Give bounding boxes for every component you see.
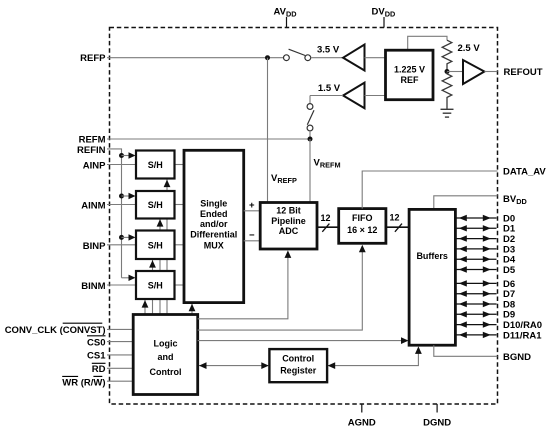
ground symbol under divider [441, 108, 454, 110]
wire logic to Buffers enable [198, 340, 402, 342]
svg-text:AINM: AINM [81, 200, 105, 211]
svg-text:CS1: CS1 [87, 350, 106, 361]
svg-text:1.225 V: 1.225 V [394, 64, 425, 74]
svg-text:REFM: REFM [79, 134, 106, 145]
wire REFIN branch to S/H 2 [122, 195, 130, 197]
wire switch S1 to 3.5V buffer [311, 57, 343, 59]
wire logic to ADC clock [198, 255, 288, 319]
sample clock lines from logic to S/H and MUX [144, 300, 146, 315]
wire RD [107, 367, 133, 369]
wire BINM to S/H 4 [107, 284, 136, 286]
node REFIN to S/H 2 [119, 194, 124, 199]
DGND ground pin [436, 404, 438, 413]
S/H 2 box [136, 191, 175, 219]
Buffers box [409, 209, 455, 345]
svg-text:FIFO: FIFO [352, 213, 373, 223]
wire 3.5V buffer input from REF box [365, 57, 386, 59]
data pin D1 bidirectional line [455, 227, 496, 229]
arrowhead into FIFO bottom [359, 245, 366, 253]
svg-text:−: − [249, 230, 255, 241]
arrowhead into control register right edge [328, 362, 336, 369]
wire REF box top to resistor divider [408, 36, 447, 50]
svg-text:REFOUT: REFOUT [504, 67, 543, 78]
clock arrowhead into S/H 3 [149, 260, 156, 268]
op-amp buffer REFOUT (points right) [463, 60, 484, 84]
arrowhead into Buffers bottom [415, 346, 422, 354]
svg-text:DGND: DGND [423, 418, 451, 429]
svg-text:3.5 V: 3.5 V [317, 45, 340, 56]
op-amp buffer 1.5V (points left) [343, 83, 364, 109]
node 2.5V tap [445, 69, 450, 74]
AGND ground pin [361, 404, 363, 413]
wire DATA_AV from FIFO [362, 171, 497, 209]
svg-text:Register: Register [280, 366, 317, 376]
svg-text:BINP: BINP [83, 241, 106, 252]
bus ADC to FIFO [317, 226, 339, 228]
wire logic to FIFO control [198, 249, 363, 330]
ADC box 12 Bit Pipeline ADC [260, 203, 317, 250]
wire REFOUT buffer to pin [484, 71, 497, 73]
svg-text:WR (R/W): WR (R/W) [62, 377, 105, 388]
wire control register to Buffers [328, 351, 419, 366]
svg-text:S/H: S/H [148, 280, 163, 290]
svg-text:MUX: MUX [204, 241, 224, 251]
wire MUX plus output to ADC [244, 210, 261, 212]
wire switch S2 down to REFM junction [309, 131, 311, 139]
node VREFP junction on REFP wire [265, 55, 270, 60]
svg-text:S/H: S/H [148, 240, 163, 250]
wire 1.5V buffer output to switch S2 [310, 95, 343, 97]
svg-text:Logic: Logic [154, 339, 178, 349]
svg-text:REF: REF [401, 75, 420, 85]
svg-text:and: and [157, 352, 173, 362]
voltage reference U1 1.225V REF box [386, 50, 434, 99]
wire VREFP vertical down to ADC [267, 58, 269, 203]
svg-text:BINM: BINM [81, 281, 105, 292]
svg-text:REFIN: REFIN [77, 145, 106, 156]
data pin D6 bidirectional line [455, 282, 496, 284]
switch S2 (1.5V buffer to REFM net) [307, 104, 313, 110]
Control Register box [269, 349, 327, 382]
bus width slash ADC-FIFO [322, 224, 329, 232]
svg-text:D5: D5 [503, 265, 516, 276]
clock arrowhead into S/H 4 [142, 300, 149, 308]
svg-text:AGND: AGND [348, 418, 376, 429]
overline WR [62, 375, 78, 377]
wire S/H 1 output to MUX [175, 164, 185, 166]
S/H 4 box [136, 271, 175, 299]
switch S1 (REFP to 3.5V buffer) [284, 55, 290, 61]
svg-text:Differential: Differential [190, 229, 237, 239]
svg-text:2.5 V: 2.5 V [458, 43, 481, 54]
data pin D8 bidirectional line [455, 303, 496, 305]
FIFO box 16x12 [339, 209, 386, 244]
svg-text:and/or: and/or [200, 219, 228, 229]
svg-text:REFP: REFP [80, 53, 106, 64]
node REFM junction [308, 137, 313, 142]
svg-text:ADC: ADC [279, 226, 299, 236]
clock arrowhead into MUX [189, 304, 196, 312]
wire BGND to Buffers bottom [434, 345, 498, 356]
wire S/H 4 output to MUX [175, 284, 185, 286]
svg-text:DATA_AV: DATA_AV [503, 167, 546, 178]
svg-text:12: 12 [390, 212, 400, 222]
svg-text:+: + [249, 200, 255, 211]
wire 2.5V tap to REFOUT buffer [447, 71, 463, 73]
wire REFIN branch to S/H 4 [122, 277, 130, 279]
wire CS0 [107, 341, 133, 343]
overline W of R/W [93, 375, 102, 377]
wire REFIN distribution [107, 149, 122, 278]
data pin D5 bidirectional line [455, 269, 496, 271]
data pin D4 bidirectional line [455, 258, 496, 260]
wire BINP to S/H 3 [107, 244, 136, 246]
data pin D9 bidirectional line [455, 313, 496, 315]
arrowhead into ADC bottom [285, 250, 292, 258]
node REFIN to S/H 3 [119, 235, 124, 240]
overline CONVST [63, 322, 103, 324]
svg-text:S/H: S/H [148, 200, 163, 210]
data pin D10/RA0 bidirectional line [455, 324, 496, 326]
MUX box Single Ended and/or Differential MUX [184, 150, 244, 302]
svg-text:RD: RD [92, 364, 106, 375]
wire 1.5V buffer input from REF box [365, 95, 386, 97]
clock arrowhead into S/H 2 [157, 219, 164, 227]
overline CS0 [87, 335, 106, 337]
wire S/H 3 output to MUX [175, 244, 185, 246]
svg-text:Pipeline: Pipeline [271, 216, 306, 226]
wire AINP to S/H 1 [107, 164, 136, 166]
wire MUX minus output to ADC [244, 240, 261, 242]
wire CS1 [107, 354, 133, 356]
resistor R1 (upper divider) [442, 40, 452, 71]
wire CONV_CLK [107, 328, 133, 330]
svg-text:CONV_CLK (CONVST): CONV_CLK (CONVST) [5, 325, 106, 336]
data pin D11/RA1 bidirectional line [455, 334, 496, 336]
svg-text:Control: Control [282, 354, 314, 364]
wire REFIN branch to S/H 1 [122, 155, 130, 157]
bus width slash FIFO-Buffers [395, 224, 402, 232]
op-amp buffer 3.5V (points left) [343, 45, 364, 71]
arrowhead into logic right edge [199, 362, 207, 369]
data pin D7 bidirectional line [455, 293, 496, 295]
svg-text:BGND: BGND [503, 352, 531, 363]
data pin D0 bidirectional line [455, 217, 496, 219]
svg-text:16 × 12: 16 × 12 [347, 225, 377, 235]
wire REFP to switch S1 [107, 57, 284, 59]
resistor R2 (lower divider) [442, 72, 452, 110]
S/H 1 box [136, 151, 175, 179]
wire VREFM vertical down to ADC [309, 139, 311, 203]
overline RD [92, 362, 106, 364]
svg-text:S/H: S/H [148, 160, 163, 170]
wire REFIN branch to S/H 3 [122, 236, 130, 238]
node REFIN to S/H 1 [119, 153, 124, 158]
svg-text:1.5 V: 1.5 V [318, 83, 341, 94]
svg-text:D11/RA1: D11/RA1 [503, 330, 542, 341]
arrowhead into control register left edge [261, 362, 269, 369]
svg-text:AINP: AINP [83, 160, 106, 171]
svg-text:Ended: Ended [200, 209, 228, 219]
svg-text:12: 12 [321, 213, 331, 223]
wire BVDD to Buffers top [434, 196, 498, 210]
wire logic to control register bidirectional [199, 365, 268, 367]
svg-text:CS0: CS0 [87, 337, 105, 348]
dashed chip boundary [110, 28, 498, 405]
arrowhead into Buffers left [401, 337, 409, 344]
clock arrowhead into S/H 1 [164, 180, 171, 188]
Logic and Control box [133, 315, 198, 395]
wire WR [107, 380, 133, 382]
svg-text:Buffers: Buffers [416, 251, 448, 261]
wire AINM to S/H 2 [107, 204, 136, 206]
wire REFM [107, 138, 310, 140]
wire S/H 2 output to MUX [175, 204, 185, 206]
svg-text:Control: Control [150, 367, 182, 377]
svg-text:Single: Single [200, 199, 227, 209]
data pin D2 bidirectional line [455, 238, 496, 240]
S/H 3 box [136, 231, 175, 260]
svg-text:12 Bit: 12 Bit [276, 206, 301, 216]
bus FIFO to Buffers [386, 226, 409, 228]
data pin D3 bidirectional line [455, 248, 496, 250]
